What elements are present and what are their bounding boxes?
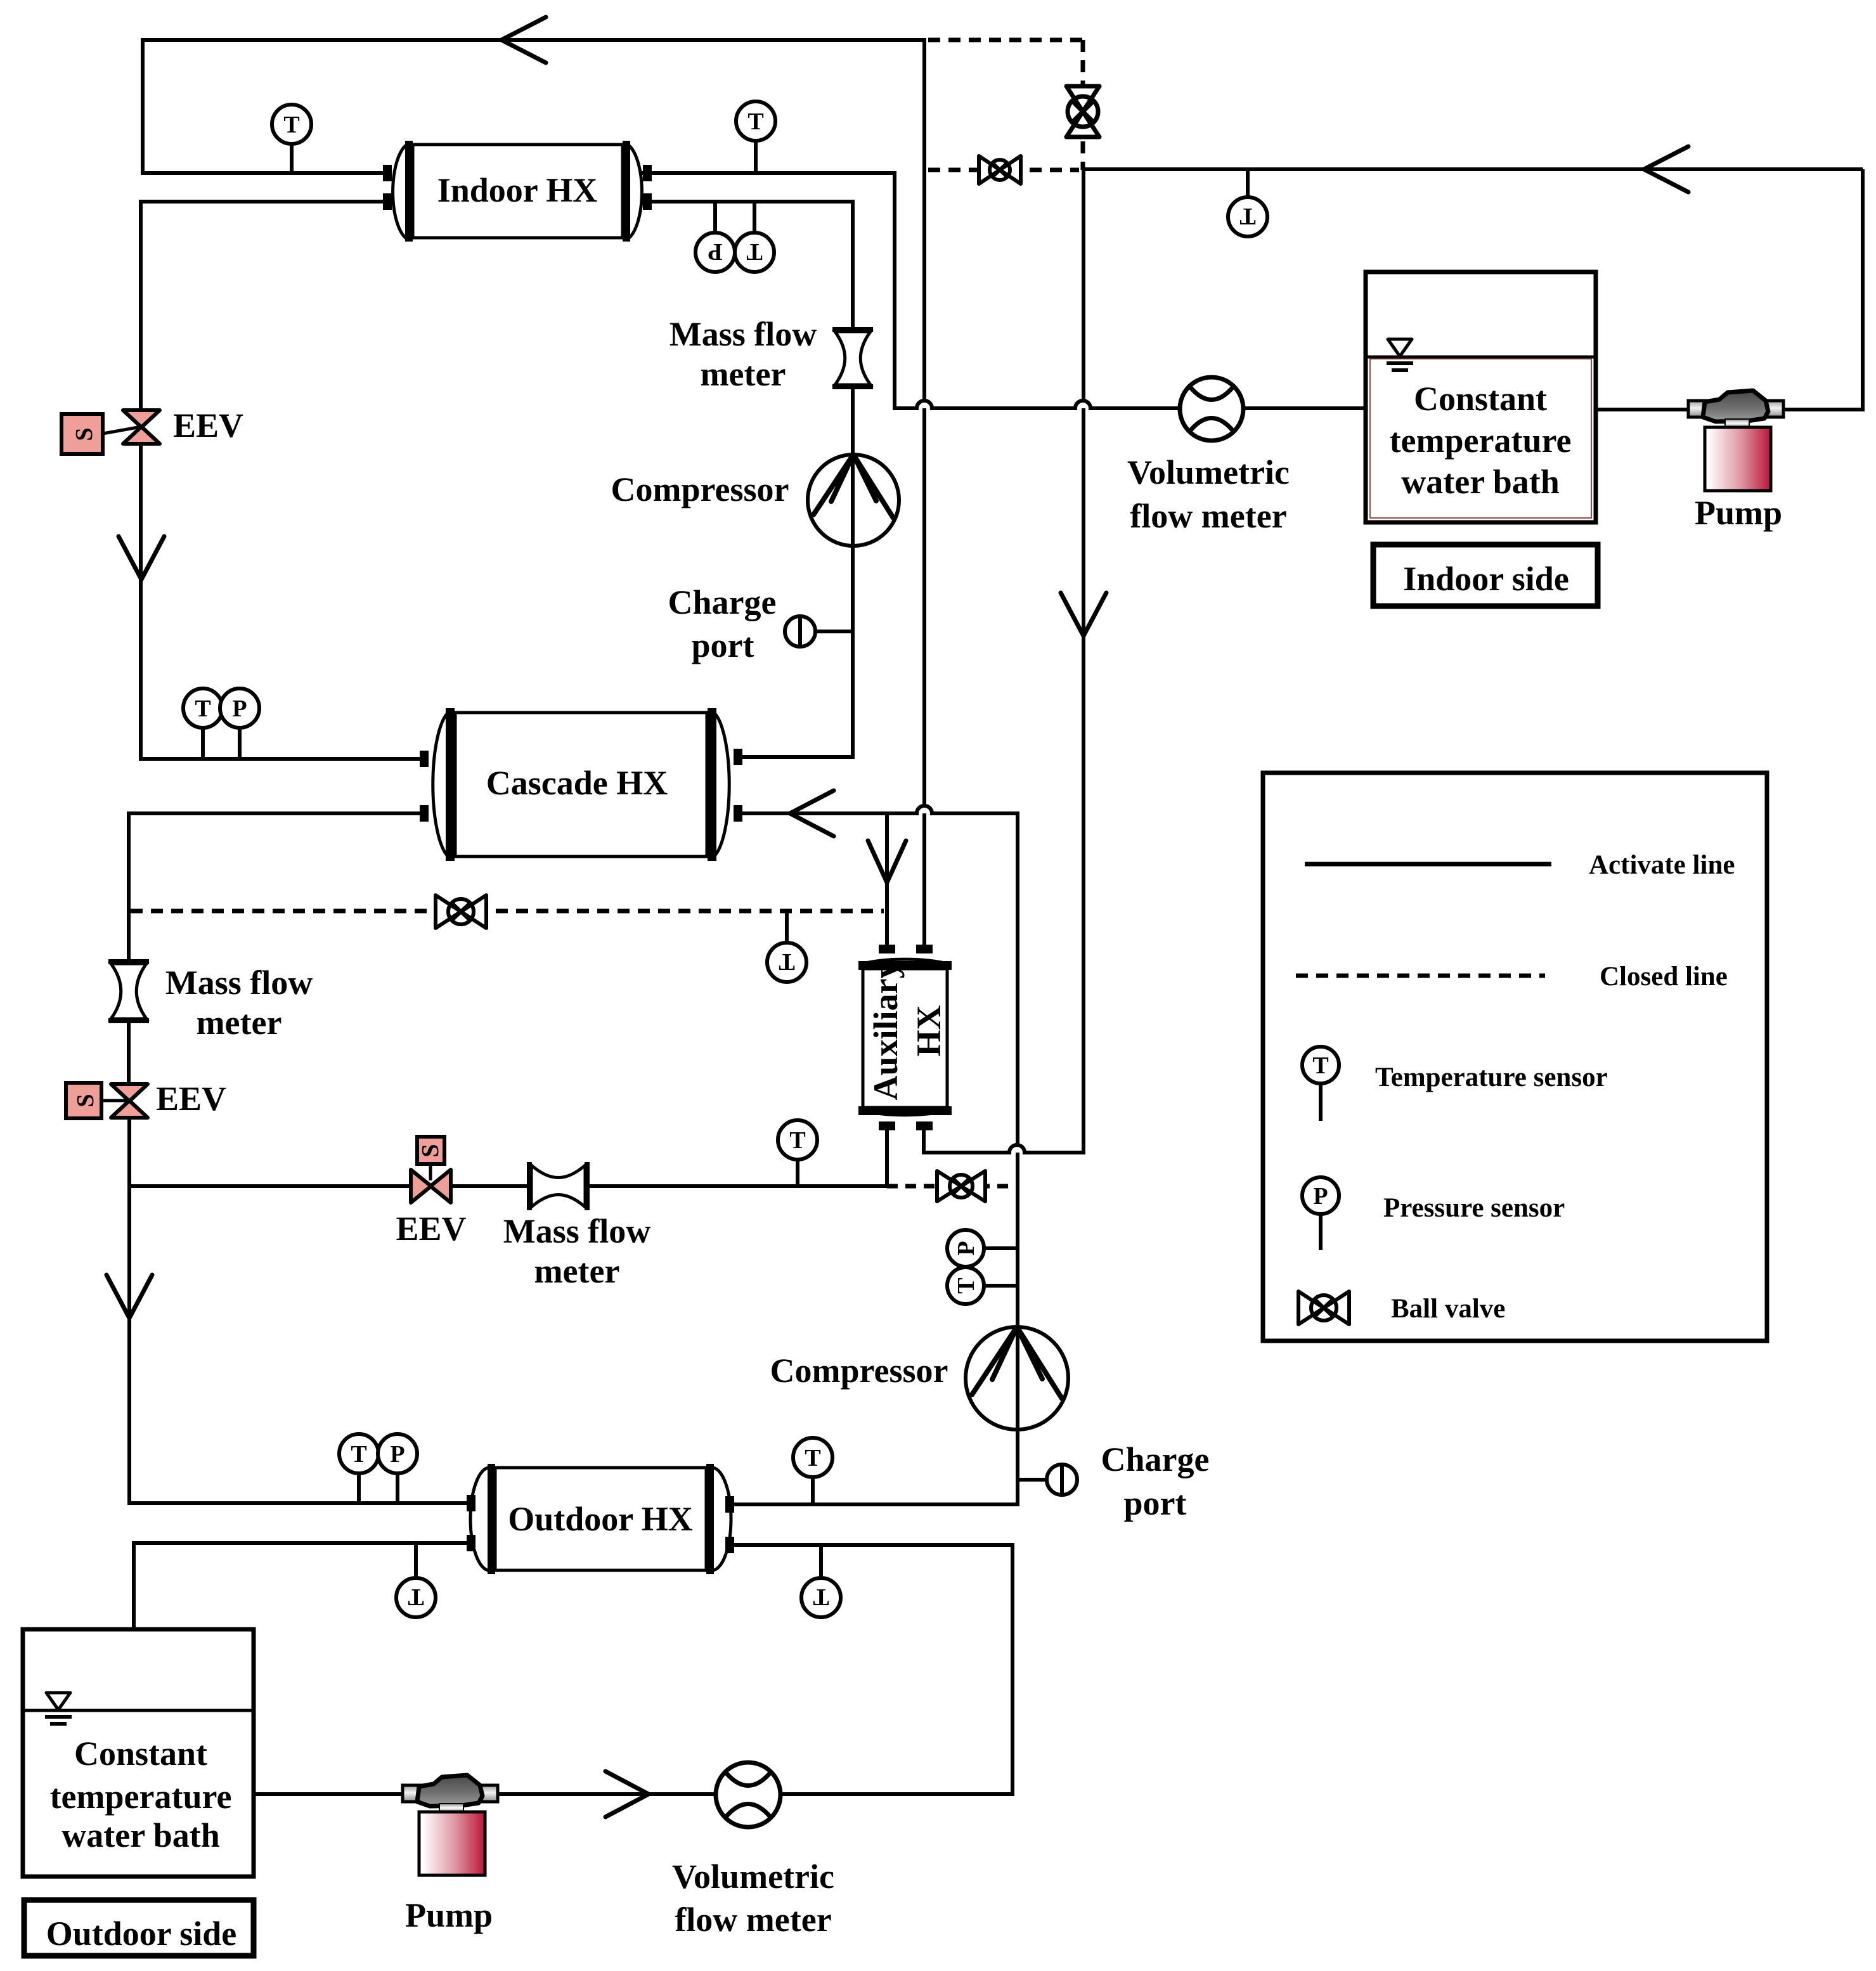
svg-text:Mass flow: Mass flow xyxy=(165,964,313,1002)
temperature sensor (rotated) on compressor2 suction xyxy=(947,1267,1018,1304)
svg-text:Volumetric: Volumetric xyxy=(1127,453,1290,491)
svg-text:Temperature sensor: Temperature sensor xyxy=(1375,1063,1608,1092)
Indoor constant temperature water bath xyxy=(1366,272,1596,522)
svg-text:Auxiliary: Auxiliary xyxy=(867,961,905,1100)
svg-text:Pump: Pump xyxy=(1695,494,1782,532)
svg-text:HX: HX xyxy=(910,1005,948,1056)
white hop masks + re-stroke hops on water line xyxy=(917,401,1090,1153)
wire: Indoor HX lower-right to compressor1 and Cascade upper-right xyxy=(641,202,853,757)
mass flow meter 3 xyxy=(529,1162,587,1210)
wire: indoor water top rail xyxy=(143,38,924,42)
svg-text:Ball valve: Ball valve xyxy=(1391,1294,1505,1324)
svg-text:T: T xyxy=(1312,1052,1328,1079)
svg-text:Constant: Constant xyxy=(74,1735,207,1773)
mass flow meter 1 xyxy=(832,330,873,387)
volumetric flow meter 2 xyxy=(716,1762,780,1827)
wire: left riser to Indoor HX water inlet xyxy=(143,38,391,173)
svg-text:temperature: temperature xyxy=(1390,422,1572,460)
wire: discharge branch down into Aux HX top-left xyxy=(885,815,889,945)
svg-text:Mass flow: Mass flow xyxy=(670,315,817,353)
ball valve BV3 on cascade bypass xyxy=(436,895,486,928)
svg-text:flow meter: flow meter xyxy=(1130,497,1286,535)
svg-text:T: T xyxy=(1239,203,1255,229)
wire: EEV2 down to Outdoor HX upper-left xyxy=(129,1116,472,1503)
flow arrow down to Outdoor HX xyxy=(107,1275,152,1318)
legend: pressure sensor symbol xyxy=(1302,1177,1339,1250)
wire: meter2 to EEV2 xyxy=(127,1021,131,1085)
svg-text:EEV: EEV xyxy=(173,406,243,444)
svg-text:temperature: temperature xyxy=(50,1778,232,1816)
ball valve BV1 (vertical) xyxy=(1066,86,1099,137)
Outdoor constant temperature water bath xyxy=(23,1629,254,1877)
temperature sensor T1 xyxy=(272,105,311,173)
compressor 1 xyxy=(808,455,899,546)
svg-text:S: S xyxy=(72,1094,99,1107)
wire: EEV1 outlet down to Cascade HX upper-left xyxy=(141,442,425,759)
legend: closed line sample xyxy=(1296,974,1545,978)
svg-text:Pump: Pump xyxy=(405,1896,493,1934)
svg-text:Closed line: Closed line xyxy=(1600,962,1728,992)
svg-text:Cascade HX: Cascade HX xyxy=(486,764,668,802)
closed line: top bypass dashed segments xyxy=(928,40,1083,170)
svg-text:T: T xyxy=(746,238,762,265)
legend: temperature sensor symbol xyxy=(1302,1047,1339,1121)
wire: Aux HX bottom-left down to EEV3 line xyxy=(885,1129,889,1186)
svg-text:S: S xyxy=(71,427,98,441)
svg-text:Outdoor side: Outdoor side xyxy=(46,1915,237,1953)
temperature sensor (inverted) on cascade bypass xyxy=(767,911,806,982)
temperature sensor T4 (inverted) on water return xyxy=(1228,169,1267,236)
svg-text:Constant: Constant xyxy=(1414,380,1547,418)
svg-text:water bath: water bath xyxy=(61,1816,220,1854)
wire: Outdoor HX water outlet (lower-left) into bath xyxy=(134,1543,474,1631)
Outdoor side label box xyxy=(24,1900,254,1956)
Indoor HX xyxy=(383,141,652,242)
svg-text:Activate line: Activate line xyxy=(1589,850,1735,880)
svg-text:Charge: Charge xyxy=(1101,1440,1210,1478)
temperature sensor T3 xyxy=(183,688,223,759)
EEV 3 xyxy=(411,1137,451,1203)
EEV 1 xyxy=(61,410,160,454)
svg-text:Charge: Charge xyxy=(668,583,777,621)
temperature sensor T8 (inverted) under Outdoor HX left xyxy=(396,1543,436,1617)
wire: indoor water return from pump down to Aux HX bottom-right xyxy=(924,169,1863,1153)
svg-text:P: P xyxy=(390,1441,404,1468)
volumetric flow meter 1 xyxy=(1180,377,1243,441)
svg-text:Pressure sensor: Pressure sensor xyxy=(1383,1193,1565,1223)
wire: water riser from top rail down to Aux HX top-right xyxy=(922,38,926,946)
svg-text:P: P xyxy=(953,1241,980,1255)
flow arrow right on bottom water line xyxy=(605,1771,649,1817)
closed line: Aux HX refrigerant bypass (dashed) xyxy=(887,1184,1018,1189)
svg-text:T: T xyxy=(747,108,763,135)
svg-text:T: T xyxy=(953,1277,980,1293)
Outdoor HX xyxy=(467,1464,734,1574)
svg-text:meter: meter xyxy=(197,1004,282,1042)
Auxiliary HX (vertical) xyxy=(858,945,952,1130)
temperature sensor T5 on EEV3 line xyxy=(778,1120,817,1186)
legend box xyxy=(1263,773,1767,1341)
mass flow meter 2 xyxy=(108,962,149,1021)
svg-text:Indoor side: Indoor side xyxy=(1403,560,1569,598)
svg-text:port: port xyxy=(1124,1484,1187,1522)
temperature sensor T9 (inverted) under Outdoor HX right xyxy=(801,1545,841,1617)
svg-text:T: T xyxy=(195,695,210,722)
EEV 2 xyxy=(66,1083,148,1118)
svg-text:T: T xyxy=(779,948,794,975)
compressor 2 xyxy=(966,1327,1068,1430)
Indoor side label box xyxy=(1373,545,1598,606)
temperature sensor T6 xyxy=(339,1434,378,1503)
legend: ball valve symbol xyxy=(1298,1291,1349,1324)
pressure sensor P6 xyxy=(378,1434,417,1503)
svg-text:P: P xyxy=(708,238,722,265)
svg-text:T: T xyxy=(805,1445,820,1471)
pressure sensor P3 xyxy=(220,688,259,759)
flow arrow down after EEV1 xyxy=(119,536,164,579)
svg-text:T: T xyxy=(789,1127,805,1154)
svg-text:Indoor HX: Indoor HX xyxy=(437,171,598,209)
ball valve BV2 (horizontal) xyxy=(979,156,1021,184)
pump 2 xyxy=(403,1775,498,1875)
flow arrow into Aux HX xyxy=(868,841,906,882)
svg-text:S: S xyxy=(417,1144,444,1157)
wire: bath to pump1 to return riser xyxy=(1596,169,1863,410)
svg-text:water bath: water bath xyxy=(1401,463,1560,501)
svg-text:Compressor: Compressor xyxy=(770,1352,948,1390)
svg-text:Outdoor HX: Outdoor HX xyxy=(508,1500,693,1538)
svg-text:port: port xyxy=(692,626,754,664)
flow arrow left on water return xyxy=(1644,146,1688,192)
svg-text:P: P xyxy=(232,695,247,722)
svg-text:Volumetric: Volumetric xyxy=(672,1858,834,1896)
svg-text:Mass flow: Mass flow xyxy=(503,1212,650,1250)
wire: Cascade lower-left down to mass flow meter 2 xyxy=(129,813,425,962)
charge port 2 xyxy=(1018,1464,1077,1495)
svg-text:meter: meter xyxy=(701,355,786,393)
flow arrow into Cascade lower-right xyxy=(790,791,834,836)
temperature sensor (inverted) below Indoor HX outlet xyxy=(735,202,774,272)
svg-text:T: T xyxy=(813,1584,829,1610)
temperature sensor T2 xyxy=(736,101,775,173)
flow arrow down on water return riser xyxy=(1061,593,1106,636)
wire: Indoor HX upper-right to water line and bath xyxy=(641,173,1366,408)
charge port 1 xyxy=(785,616,853,647)
svg-text:meter: meter xyxy=(534,1252,620,1290)
svg-text:Compressor: Compressor xyxy=(611,470,789,508)
svg-text:EEV: EEV xyxy=(396,1210,466,1248)
svg-text:EEV: EEV xyxy=(156,1080,226,1118)
wire: EEV3 expansion branch xyxy=(129,1184,887,1188)
Cascade HX xyxy=(420,708,742,861)
pressure sensor (inverted) below Indoor HX outlet xyxy=(695,202,735,272)
pump 1 xyxy=(1688,391,1783,491)
svg-text:T: T xyxy=(351,1441,366,1468)
wire: Outdoor HX water inlet loop (lower-right, down and left to bath) xyxy=(255,1545,1012,1794)
ball valve BV4 on Aux bypass xyxy=(937,1171,985,1201)
wire: Indoor HX refrigerant lower-left to EEV1 xyxy=(141,202,391,412)
svg-text:P: P xyxy=(1313,1183,1328,1210)
temperature sensor T7 xyxy=(793,1438,832,1504)
svg-text:flow meter: flow meter xyxy=(675,1901,831,1939)
wire: compressor2 discharge to Cascade lower-right, down to Outdoor HX upper-right xyxy=(728,806,1018,1504)
legend: activate line sample xyxy=(1305,862,1551,867)
svg-text:T: T xyxy=(283,112,299,138)
pressure sensor (rotated) on compressor2 suction xyxy=(947,1230,1018,1267)
svg-text:T: T xyxy=(408,1584,424,1610)
closed line: cascade bypass (dashed) xyxy=(131,909,884,914)
flow arrow left on top rail xyxy=(501,17,546,63)
